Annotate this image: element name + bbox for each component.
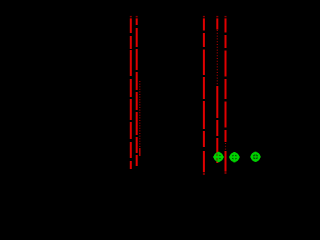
- wire W3 (fine dotted red line right of pair): [139, 81, 141, 156]
- wire W6 (red dashed vertical track at x=225.5): [225, 16, 227, 174]
- wire W2 (red dashed vertical track, left pair, right): [136, 16, 138, 166]
- wire W1 (red dashed vertical track, left pair, left): [130, 16, 132, 169]
- via V2 (green ring with crosshair): [229, 152, 239, 162]
- via V3 (green ring with crosshair): [250, 152, 260, 162]
- via V1 (green ring with crosshair): [213, 152, 223, 162]
- wire W5 (red track at x=217: solid, dotted middle, dashed lower; runs under via V1): [216, 16, 218, 163]
- track W5 showing dimly inside via V1 hole: [216, 154, 218, 161]
- wire W4 (red dashed vertical track at x=204): [203, 16, 205, 175]
